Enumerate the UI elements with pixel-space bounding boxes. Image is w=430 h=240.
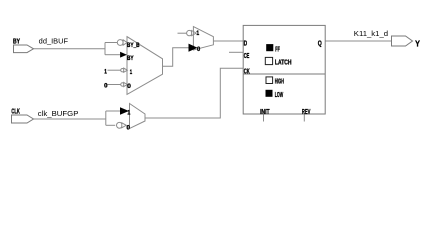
svg-text:REV: REV — [302, 109, 311, 116]
svg-text:INIT: INIT — [260, 109, 270, 116]
svg-text:HIGH: HIGH — [275, 79, 284, 86]
svg-text:CE: CE — [244, 53, 250, 60]
svg-text:dd_IBUF: dd_IBUF — [39, 38, 68, 45]
svg-text:clk_BUFGP: clk_BUFGP — [38, 111, 79, 118]
svg-text:LATCH: LATCH — [275, 60, 292, 67]
svg-text:CLK: CLK — [11, 108, 20, 115]
svg-text:BY: BY — [127, 56, 134, 62]
svg-text:BY_B: BY_B — [127, 43, 140, 49]
svg-text:Y: Y — [415, 38, 420, 48]
svg-text:K11_k1_d: K11_k1_d — [354, 31, 388, 38]
svg-text:D: D — [244, 41, 248, 48]
svg-text:LOW: LOW — [275, 92, 284, 99]
svg-text:Q: Q — [318, 40, 322, 47]
svg-text:CK: CK — [244, 69, 250, 76]
svg-text:BY: BY — [13, 39, 20, 46]
svg-text:FF: FF — [275, 46, 280, 53]
